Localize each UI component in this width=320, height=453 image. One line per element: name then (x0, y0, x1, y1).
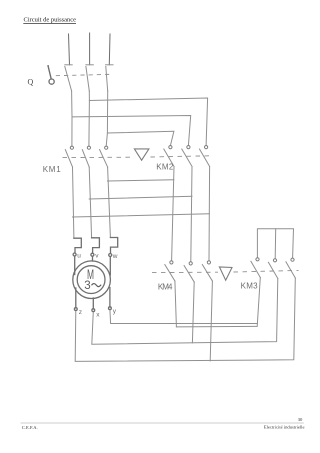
svg-text:KM1: KM1 (43, 165, 62, 174)
svg-text:KM2: KM2 (156, 163, 174, 172)
svg-text:v: v (95, 253, 99, 260)
svg-text:Circuit de puissance: Circuit de puissance (24, 17, 77, 24)
svg-text:w: w (112, 253, 118, 260)
svg-text:Q: Q (28, 78, 34, 87)
svg-text:Electricité industrielle: Electricité industrielle (264, 424, 305, 429)
svg-text:30: 30 (298, 417, 303, 422)
svg-text:KM4: KM4 (158, 283, 173, 292)
svg-text:z: z (79, 309, 82, 316)
svg-text:y: y (113, 308, 117, 315)
svg-text:KM3: KM3 (241, 282, 259, 291)
svg-text:C.E.F.A.: C.E.F.A. (22, 425, 38, 430)
svg-text:x: x (96, 312, 100, 319)
svg-text:3: 3 (84, 279, 90, 292)
svg-text:u: u (77, 252, 81, 259)
